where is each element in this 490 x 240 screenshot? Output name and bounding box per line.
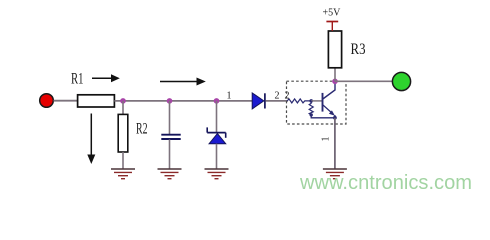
wire emitter pin to ground: [334, 118, 336, 169]
wire diode to optocoupler: [266, 100, 289, 102]
capacitor C1: [161, 135, 180, 139]
wire node to R3: [334, 68, 336, 82]
wire R2 to ground: [122, 152, 124, 169]
node OUT (green output terminal): [392, 72, 410, 90]
wire base node to transistor base: [311, 100, 322, 102]
node (resistor bottom): [310, 113, 313, 116]
wire IN to R1: [54, 100, 78, 102]
current direction arrow down (below R1): [87, 114, 95, 165]
ground (opto emitter): [323, 169, 347, 179]
current direction arrow above R1: [92, 74, 120, 82]
wire junction to capacitor: [169, 101, 171, 134]
pin number 1 (emitter, rotated): [320, 137, 331, 142]
junction node at capacitor branch: [167, 98, 173, 104]
junction node at zener branch: [214, 98, 220, 104]
current direction arrow mid rail: [160, 78, 206, 86]
pin number 1 (diode anode): [227, 90, 232, 101]
diode D2 (opto LED input diode): [252, 93, 265, 109]
svg-text:2: 2: [275, 90, 280, 101]
optocoupler U1 dashed package box: [287, 81, 347, 124]
wire main rail R1 to diode: [114, 100, 252, 102]
junction node collector / R3 / output: [332, 79, 338, 85]
node (base node): [309, 99, 313, 103]
opto internal base resistor (vertical zigzag): [309, 101, 313, 115]
junction node at R2 branch: [120, 98, 126, 104]
wire junction to R2: [122, 101, 124, 115]
ground (below capacitor): [158, 169, 182, 179]
+5V power symbol: [326, 22, 338, 32]
svg-text:R1: R1: [71, 70, 84, 87]
svg-text:www.cntronics.com: www.cntronics.com: [299, 172, 472, 194]
label R3: [351, 41, 366, 58]
wire capacitor to ground: [169, 140, 171, 170]
wire node to output terminal: [335, 80, 393, 82]
wire opto bottom rail: [311, 115, 335, 118]
pin number 2: [275, 90, 280, 101]
opto input series resistor (zigzag): [287, 99, 311, 103]
label +5V: [323, 8, 342, 19]
wire junction to zener: [216, 101, 218, 133]
wire zener to ground: [216, 144, 218, 169]
resistor R3: [328, 31, 341, 68]
Q1 collector: [323, 81, 335, 99]
zener diode D1: [207, 127, 226, 143]
ground (below R2): [111, 169, 135, 179]
node (emitter junction): [333, 116, 337, 120]
phototransistor Q1 base bar: [322, 93, 324, 112]
svg-text:R3: R3: [351, 41, 366, 58]
svg-text:+5V: +5V: [323, 8, 342, 19]
Q1 emitter with arrow: [323, 105, 335, 118]
svg-text:1: 1: [227, 90, 232, 101]
svg-text:1: 1: [320, 137, 331, 142]
resistor R1: [78, 95, 115, 107]
svg-text:R2: R2: [136, 120, 148, 137]
watermark www.cntronics.com: [299, 172, 472, 194]
node IN (red input terminal): [40, 94, 54, 108]
resistor R2: [118, 114, 128, 152]
pin number 2 (package pin): [285, 90, 290, 101]
label R1: [71, 70, 84, 87]
ground (below zener): [205, 169, 229, 179]
label R2: [136, 120, 148, 137]
